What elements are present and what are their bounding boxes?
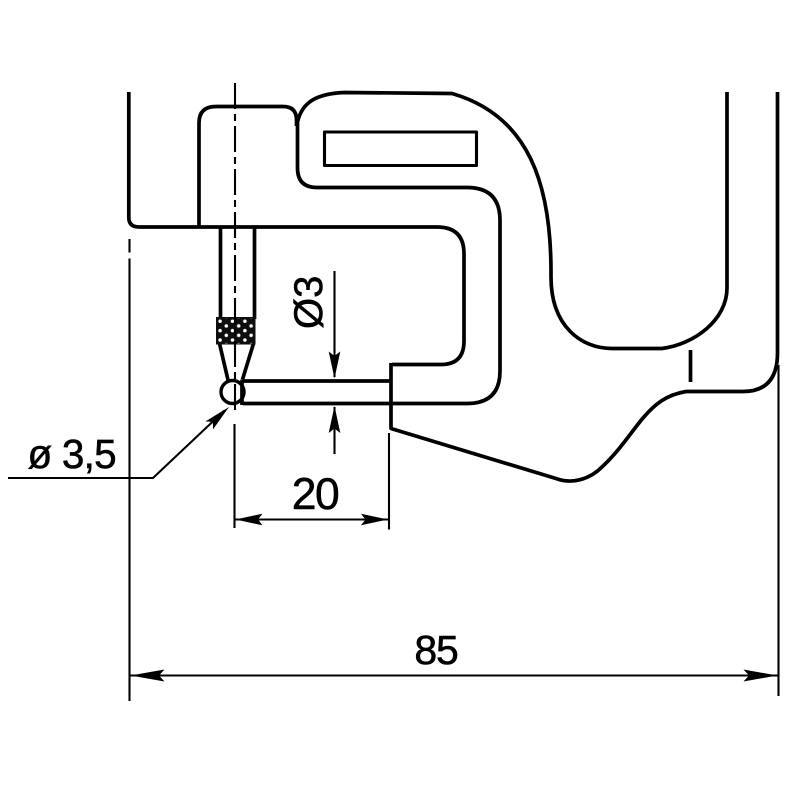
svg-text:Ø3: Ø3 <box>287 276 331 329</box>
svg-text:85: 85 <box>414 627 458 673</box>
svg-text:ø 3,5: ø 3,5 <box>28 431 116 477</box>
svg-text:20: 20 <box>292 470 339 519</box>
